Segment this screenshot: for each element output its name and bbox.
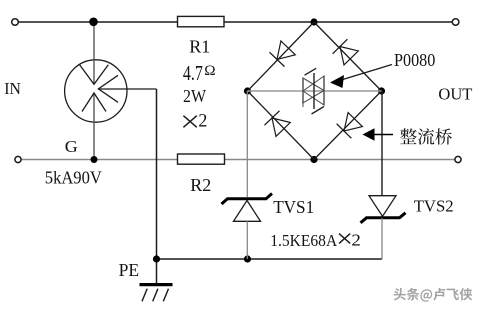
ground PE symbol [140, 285, 173, 302]
GDT bottom electrode barbs [82, 93, 106, 112]
label x2 multiplication sign (R1) [183, 116, 196, 128]
svg-text:R2: R2 [190, 175, 211, 195]
GDT top lead [93, 22, 95, 84]
junction TVS1 anode [244, 255, 251, 262]
TVS diode TVS1 cathode bar [222, 194, 273, 205]
svg-text:4.7: 4.7 [183, 61, 203, 85]
terminal IN bottom [15, 156, 21, 162]
svg-text:TVS2: TVS2 [414, 197, 454, 216]
terminal OUT top [452, 19, 459, 26]
svg-text:Ω: Ω [204, 62, 215, 79]
bridge center line [248, 90, 382, 92]
wire middle rail [21, 159, 454, 161]
bridge diode D2 top-right [333, 39, 359, 65]
TVS diode TVS1 anode lead [246, 221, 248, 259]
terminal OUT bottom [455, 156, 461, 162]
junction G node [91, 156, 98, 163]
TVS diode TVS2 cathode bar [361, 213, 406, 223]
gas discharge tube G circle [65, 60, 127, 122]
GDT top electrode barbs [80, 65, 109, 85]
watermark shadow (white) [395, 289, 474, 303]
annotation arrow to P0080 [330, 65, 392, 89]
junction bridge top [310, 18, 317, 25]
annotation arrow to rectifier bridge [363, 128, 394, 140]
svg-text:G: G [65, 137, 78, 156]
junction top of GDT [89, 18, 98, 27]
TVS diode TVS2 anode lead [381, 218, 383, 259]
bridge edge top-left [248, 22, 315, 91]
TVS diode TVS1 triangle [234, 201, 261, 222]
watermark touTiao (Chinese) [394, 288, 473, 302]
bridge edge bottom-left [248, 91, 315, 160]
TVS diode TVS2 top lead [381, 91, 383, 196]
GDT right electrode barbs [98, 75, 118, 102]
svg-text:P0080: P0080 [394, 50, 435, 70]
TVS diode TVS1 cathode lead [246, 91, 248, 197]
svg-text:R1: R1 [189, 37, 210, 57]
svg-text:TVS1: TVS1 [273, 197, 314, 217]
resistor R1 [178, 16, 225, 26]
wire bottom PE rail [157, 258, 383, 260]
svg-text:OUT: OUT [438, 84, 473, 103]
junction bridge left [244, 87, 251, 94]
junction bridge bottom [310, 156, 317, 163]
wire GDT right lead [98, 88, 157, 90]
TSS protector P0080 symbol [303, 68, 324, 114]
svg-text:2W: 2W [183, 86, 206, 106]
svg-text:PE: PE [119, 260, 140, 280]
resistor R2 [178, 154, 225, 164]
bridge edge top-right [314, 22, 382, 91]
bridge edge bottom-right [314, 91, 382, 160]
label multiplication sign (1.5KE68A) [339, 234, 350, 244]
svg-text:2: 2 [198, 111, 207, 132]
bridge diode D1 top-left [270, 41, 296, 67]
wire top rail [18, 21, 452, 23]
label rectifier-bridge (Chinese) [400, 128, 452, 144]
bridge diode D4 bottom-right [337, 113, 363, 139]
junction bridge right [378, 87, 385, 94]
svg-text:1.5KE68A: 1.5KE68A [270, 231, 337, 250]
terminal IN top [12, 19, 19, 26]
GDT bottom lead [93, 93, 95, 160]
svg-text:5kA90V: 5kA90V [45, 168, 102, 188]
bridge diode D3 bottom-left [265, 111, 291, 137]
wire vertical G-PE [156, 89, 158, 284]
svg-text:2: 2 [351, 231, 361, 250]
TVS diode TVS2 triangle [369, 196, 396, 217]
junction PE node [153, 255, 160, 262]
svg-text:IN: IN [4, 79, 21, 98]
